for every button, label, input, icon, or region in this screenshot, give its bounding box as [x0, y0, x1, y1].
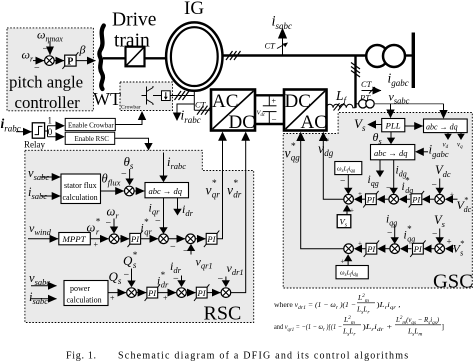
- crowbar circuit: [146, 87, 148, 105]
- svg-text:DC: DC: [285, 91, 311, 112]
- v_dg* riser: [323, 141, 344, 200]
- wire to PI4: [186, 292, 195, 294]
- svg-text:−: −: [173, 274, 179, 285]
- svg-text:L2m(vqs − Rsiqs): L2m(vqs − Rsiqs): [395, 315, 439, 326]
- wire to PI3: [136, 292, 146, 294]
- wire v_sabc to stator flux: [41, 176, 60, 178]
- wind turbine blades: [99, 26, 103, 59]
- PLL box: [382, 119, 405, 132]
- PI controller d-current: [194, 284, 209, 301]
- abc to dq box rsc: [145, 183, 189, 198]
- wire PIc to junction: [360, 248, 365, 250]
- summing junction slip angle: [125, 186, 135, 196]
- gearbox: [126, 47, 145, 67]
- wire v_wind to MPPT: [28, 238, 58, 240]
- PI controller speed: [128, 231, 143, 248]
- 3-phase slashes stator: [226, 51, 241, 60]
- wire flux angle: [101, 190, 124, 192]
- wire PIb to junction: [405, 198, 410, 200]
- wire i_qg stub: [379, 160, 381, 172]
- svg-text:irabc: irabc: [1, 116, 21, 134]
- svg-text:−: −: [121, 169, 127, 180]
- stator flux calculation box: [61, 174, 101, 204]
- svg-text:Enable Crowbar: Enable Crowbar: [68, 121, 114, 129]
- v_qr1 compensation arrow: [190, 250, 192, 255]
- wire omega_r in: [33, 60, 44, 62]
- svg-text:abc → dq: abc → dq: [149, 186, 183, 196]
- svg-text:controller: controller: [15, 93, 81, 112]
- svg-text:and vqr1 = −(1 − ωr )[(1 −: and vqr1 = −(1 − ωr )[(1 −: [274, 322, 342, 333]
- v_dr1 arrow: [225, 277, 227, 282]
- svg-text:−: −: [272, 115, 277, 125]
- wire V_s_star in: [451, 248, 454, 250]
- wire enable rsc: [115, 138, 149, 143]
- summing junction v_qr1: [186, 234, 196, 244]
- shaft wire: [103, 57, 126, 59]
- svg-text:GSC: GSC: [433, 271, 473, 293]
- summing junction pitch: [45, 56, 55, 66]
- wire transformer to grid bus: [406, 54, 413, 56]
- wire Q_s out: [108, 292, 126, 294]
- svg-text:stator flux: stator flux: [64, 181, 97, 190]
- wire V_s box up: [346, 211, 348, 215]
- induction generator IG: [166, 22, 222, 90]
- gsc row1: summing junction out: [344, 194, 354, 204]
- i_rabc tap: [177, 104, 194, 114]
- svg-text:β: β: [79, 43, 86, 57]
- Enable RSC box: [65, 132, 115, 144]
- PT symbol: [356, 103, 359, 105]
- v_dr* riser: [231, 141, 246, 293]
- i_dr meas arrow: [181, 276, 183, 282]
- shaft wire to IG: [145, 57, 167, 59]
- svg-text:CT: CT: [195, 100, 207, 110]
- MPPT box: [59, 233, 91, 245]
- svg-text:LsLm: LsLm: [407, 327, 422, 338]
- wire to relay: [16, 131, 32, 133]
- wire i_dg down: [393, 160, 395, 189]
- svg-text:IG: IG: [184, 0, 204, 19]
- svg-text:+: +: [450, 191, 454, 199]
- svg-text:LsLr: LsLr: [356, 305, 370, 316]
- svg-text:Crowbar: Crowbar: [121, 105, 141, 111]
- svg-text:CT: CT: [265, 41, 277, 51]
- svg-text:power: power: [70, 284, 90, 293]
- svg-text:Lf: Lf: [335, 88, 348, 106]
- svg-text:+: +: [358, 240, 362, 248]
- svg-text:PLL: PLL: [385, 121, 401, 131]
- svg-text:Drive: Drive: [112, 10, 156, 31]
- wire comp q down: [347, 175, 349, 189]
- wire PIa to junction: [360, 198, 365, 200]
- stator bus wire: [223, 54, 367, 56]
- svg-text:L2m: L2m: [357, 293, 369, 304]
- svg-text:−: −: [106, 218, 112, 229]
- grid-side drop wire: [354, 56, 356, 108]
- svg-text:−: −: [432, 181, 437, 191]
- wire omega_max down: [49, 41, 51, 55]
- gsc row1: summing junction V_dc: [435, 194, 445, 204]
- wire to junction v_dr1: [207, 292, 220, 294]
- wire to PI1: [119, 238, 129, 240]
- wire PId to junction: [406, 248, 412, 250]
- v_qg* riser: [301, 141, 344, 249]
- svg-text:Enable RSC: Enable RSC: [75, 135, 110, 143]
- svg-text:)Lriqr ,: )Lriqr ,: [377, 300, 401, 311]
- svg-text:−: −: [218, 274, 224, 285]
- svg-text:+: +: [272, 97, 277, 106]
- v_qr* riser: [217, 141, 223, 239]
- Enable Crowbar box: [65, 118, 115, 130]
- svg-text:+: +: [94, 240, 99, 249]
- svg-text:1: 1: [48, 116, 53, 126]
- svg-text:calculation: calculation: [67, 296, 102, 305]
- abc to dq box mid: [371, 145, 415, 160]
- svg-text:−: −: [155, 216, 161, 227]
- wire PLL to V_s: [374, 124, 382, 126]
- wire V_s meas down: [439, 229, 441, 239]
- power calculation box: [64, 281, 108, 306]
- CT arrow grid: [362, 90, 382, 92]
- formula line 1: [274, 293, 401, 316]
- wire comp d up: [347, 261, 349, 266]
- summing junction i_dr: [177, 288, 187, 298]
- svg-text:Vdc: Vdc: [257, 110, 266, 119]
- PI controller Q: [145, 284, 160, 301]
- gsc row2: summing junction V_s: [435, 244, 445, 254]
- svg-text:−: −: [386, 184, 391, 194]
- wire junction to PId: [430, 248, 435, 250]
- summing junction i_qr: [159, 234, 169, 244]
- wire PLL to abc-dq: [405, 125, 423, 127]
- grid-side converter DC/AC: [284, 90, 327, 131]
- abc to dq box top: [424, 119, 468, 133]
- svg-text:AC: AC: [212, 91, 238, 112]
- GSC control region box: [283, 113, 472, 289]
- summing junction speed: [109, 234, 119, 244]
- wire junction to PIb: [428, 198, 434, 200]
- svg-text:V*s: V*s: [453, 238, 465, 258]
- svg-text:igabc: igabc: [388, 71, 409, 89]
- svg-text:−: −: [183, 246, 189, 257]
- wire i_gabc in: [422, 151, 428, 153]
- wire v_sabc to power calc: [31, 285, 57, 287]
- svg-text:WT: WT: [93, 89, 121, 109]
- svg-text:Fig. 1.: Fig. 1.: [66, 351, 97, 361]
- crowbar dashed box: [120, 82, 173, 111]
- summing junction Q: [127, 288, 137, 298]
- svg-text:+: +: [341, 258, 345, 266]
- svg-text:−: −: [43, 44, 49, 55]
- v_ds v_qs output arrows: [447, 133, 449, 135]
- wire i_sabc to stator flux: [41, 195, 60, 197]
- omega_s L_f i_qg box: [335, 162, 362, 175]
- svg-text:CT: CT: [361, 79, 373, 89]
- svg-text:−: −: [432, 230, 437, 240]
- wire MPPT out: [90, 238, 108, 240]
- i_rabc into abc-dq: [163, 153, 165, 177]
- wire to abc-dq rsc: [134, 190, 144, 192]
- wire i_qr down: [163, 198, 165, 229]
- svg-text:−: −: [124, 270, 130, 281]
- svg-text:isabc: isabc: [272, 14, 293, 32]
- DC link rails: [255, 94, 284, 96]
- svg-text:+: +: [110, 294, 115, 303]
- svg-text:abc → dq: abc → dq: [374, 148, 408, 158]
- svg-text:0: 0: [48, 127, 53, 137]
- v_sabc signal wire: [374, 103, 443, 105]
- svg-text:RSC: RSC: [204, 303, 242, 325]
- svg-text:DC: DC: [229, 112, 255, 133]
- svg-text:]: ]: [442, 322, 444, 331]
- svg-text:+: +: [447, 237, 452, 247]
- V_s feedforward box: [337, 215, 351, 228]
- wire beta to blades: [76, 60, 95, 62]
- svg-text:AC: AC: [301, 112, 327, 133]
- wire V_dc_star in: [451, 198, 458, 200]
- svg-text:Relay: Relay: [24, 140, 45, 150]
- pitch angle controller dashed box: [7, 28, 93, 111]
- relay box: [32, 123, 44, 138]
- PI controller gsc-b: [409, 191, 424, 208]
- wire i_qr_star: [141, 238, 158, 240]
- 3-phase slashes grid drop: [351, 63, 360, 78]
- svg-text:Q*s: Q*s: [123, 250, 137, 270]
- gsc row2: summing junction i_qg: [390, 244, 400, 254]
- rotor-side converter AC/DC: [211, 90, 255, 131]
- svg-text:−: −: [340, 177, 345, 187]
- svg-text:+: +: [350, 207, 354, 215]
- wire enable crowbar: [115, 120, 142, 125]
- formula line 2: [274, 315, 444, 338]
- wire junction to PIa: [383, 198, 388, 200]
- gsc row1: summing junction i_dg: [389, 194, 399, 204]
- PI controller gsc-d: [410, 240, 425, 257]
- svg-text:P: P: [67, 56, 73, 67]
- wire omega_r down: [113, 219, 115, 228]
- v_sabc drop to abc-dq: [443, 104, 445, 112]
- wire theta_s down: [129, 169, 131, 180]
- gsc row2: summing junction out: [344, 244, 354, 254]
- transformer: [366, 45, 388, 67]
- crowbar wire to rotor: [170, 95, 194, 97]
- rotor wire from IG: [193, 91, 195, 111]
- wire i_sabc to power calc: [31, 298, 57, 300]
- RSC control region box: [25, 150, 254, 322]
- svg-text:+: +: [163, 294, 168, 303]
- svg-text:abc → dq: abc → dq: [426, 123, 458, 132]
- wire Q_s_star down: [131, 269, 133, 282]
- PI controller gsc-c: [364, 240, 379, 257]
- omega_s L_f i_dg box: [336, 266, 368, 279]
- svg-text:Schematic diagram of a DFIG an: Schematic diagram of a DFIG and its cont…: [118, 351, 409, 361]
- svg-text:calculation: calculation: [63, 193, 98, 202]
- svg-text:L2m: L2m: [343, 315, 355, 326]
- svg-text:−: −: [170, 242, 176, 253]
- wire i_dr_star: [158, 292, 176, 294]
- PI controller gsc-a: [363, 191, 378, 208]
- svg-text:vsabc: vsabc: [389, 90, 410, 106]
- DC link capacitor: [268, 95, 270, 105]
- svg-text:+: +: [358, 190, 362, 198]
- svg-text:LsLr: LsLr: [342, 327, 356, 338]
- wire to PI2: [195, 238, 205, 240]
- relay branches: [45, 126, 56, 137]
- theta_s wire down: [390, 132, 392, 139]
- PI controller q-current: [204, 231, 219, 248]
- svg-text:where vdr1 = (1 − ωr )(1 −: where vdr1 = (1 − ωr )(1 −: [274, 300, 356, 311]
- wire to next junction: [168, 238, 185, 240]
- filter inductor L_f: [327, 104, 356, 108]
- wire V_dc down: [439, 179, 441, 189]
- svg-text:)Lridr +: )Lridr +: [363, 322, 393, 333]
- summing junction v_dr1: [221, 288, 231, 298]
- wire junction to PIc: [384, 248, 390, 250]
- wire to P: [54, 60, 64, 62]
- svg-text:pitch angle: pitch angle: [9, 73, 83, 92]
- i_sabc measurement wire: [282, 37, 284, 56]
- wire i_dr stub: [177, 198, 179, 210]
- svg-text:MPPT: MPPT: [62, 234, 87, 244]
- grid bus bar: [412, 33, 415, 89]
- wire i_qg down row2: [394, 225, 396, 239]
- P controller box: [62, 52, 78, 69]
- svg-text:−: −: [387, 229, 392, 239]
- v_sabc drop to PLL: [390, 104, 392, 112]
